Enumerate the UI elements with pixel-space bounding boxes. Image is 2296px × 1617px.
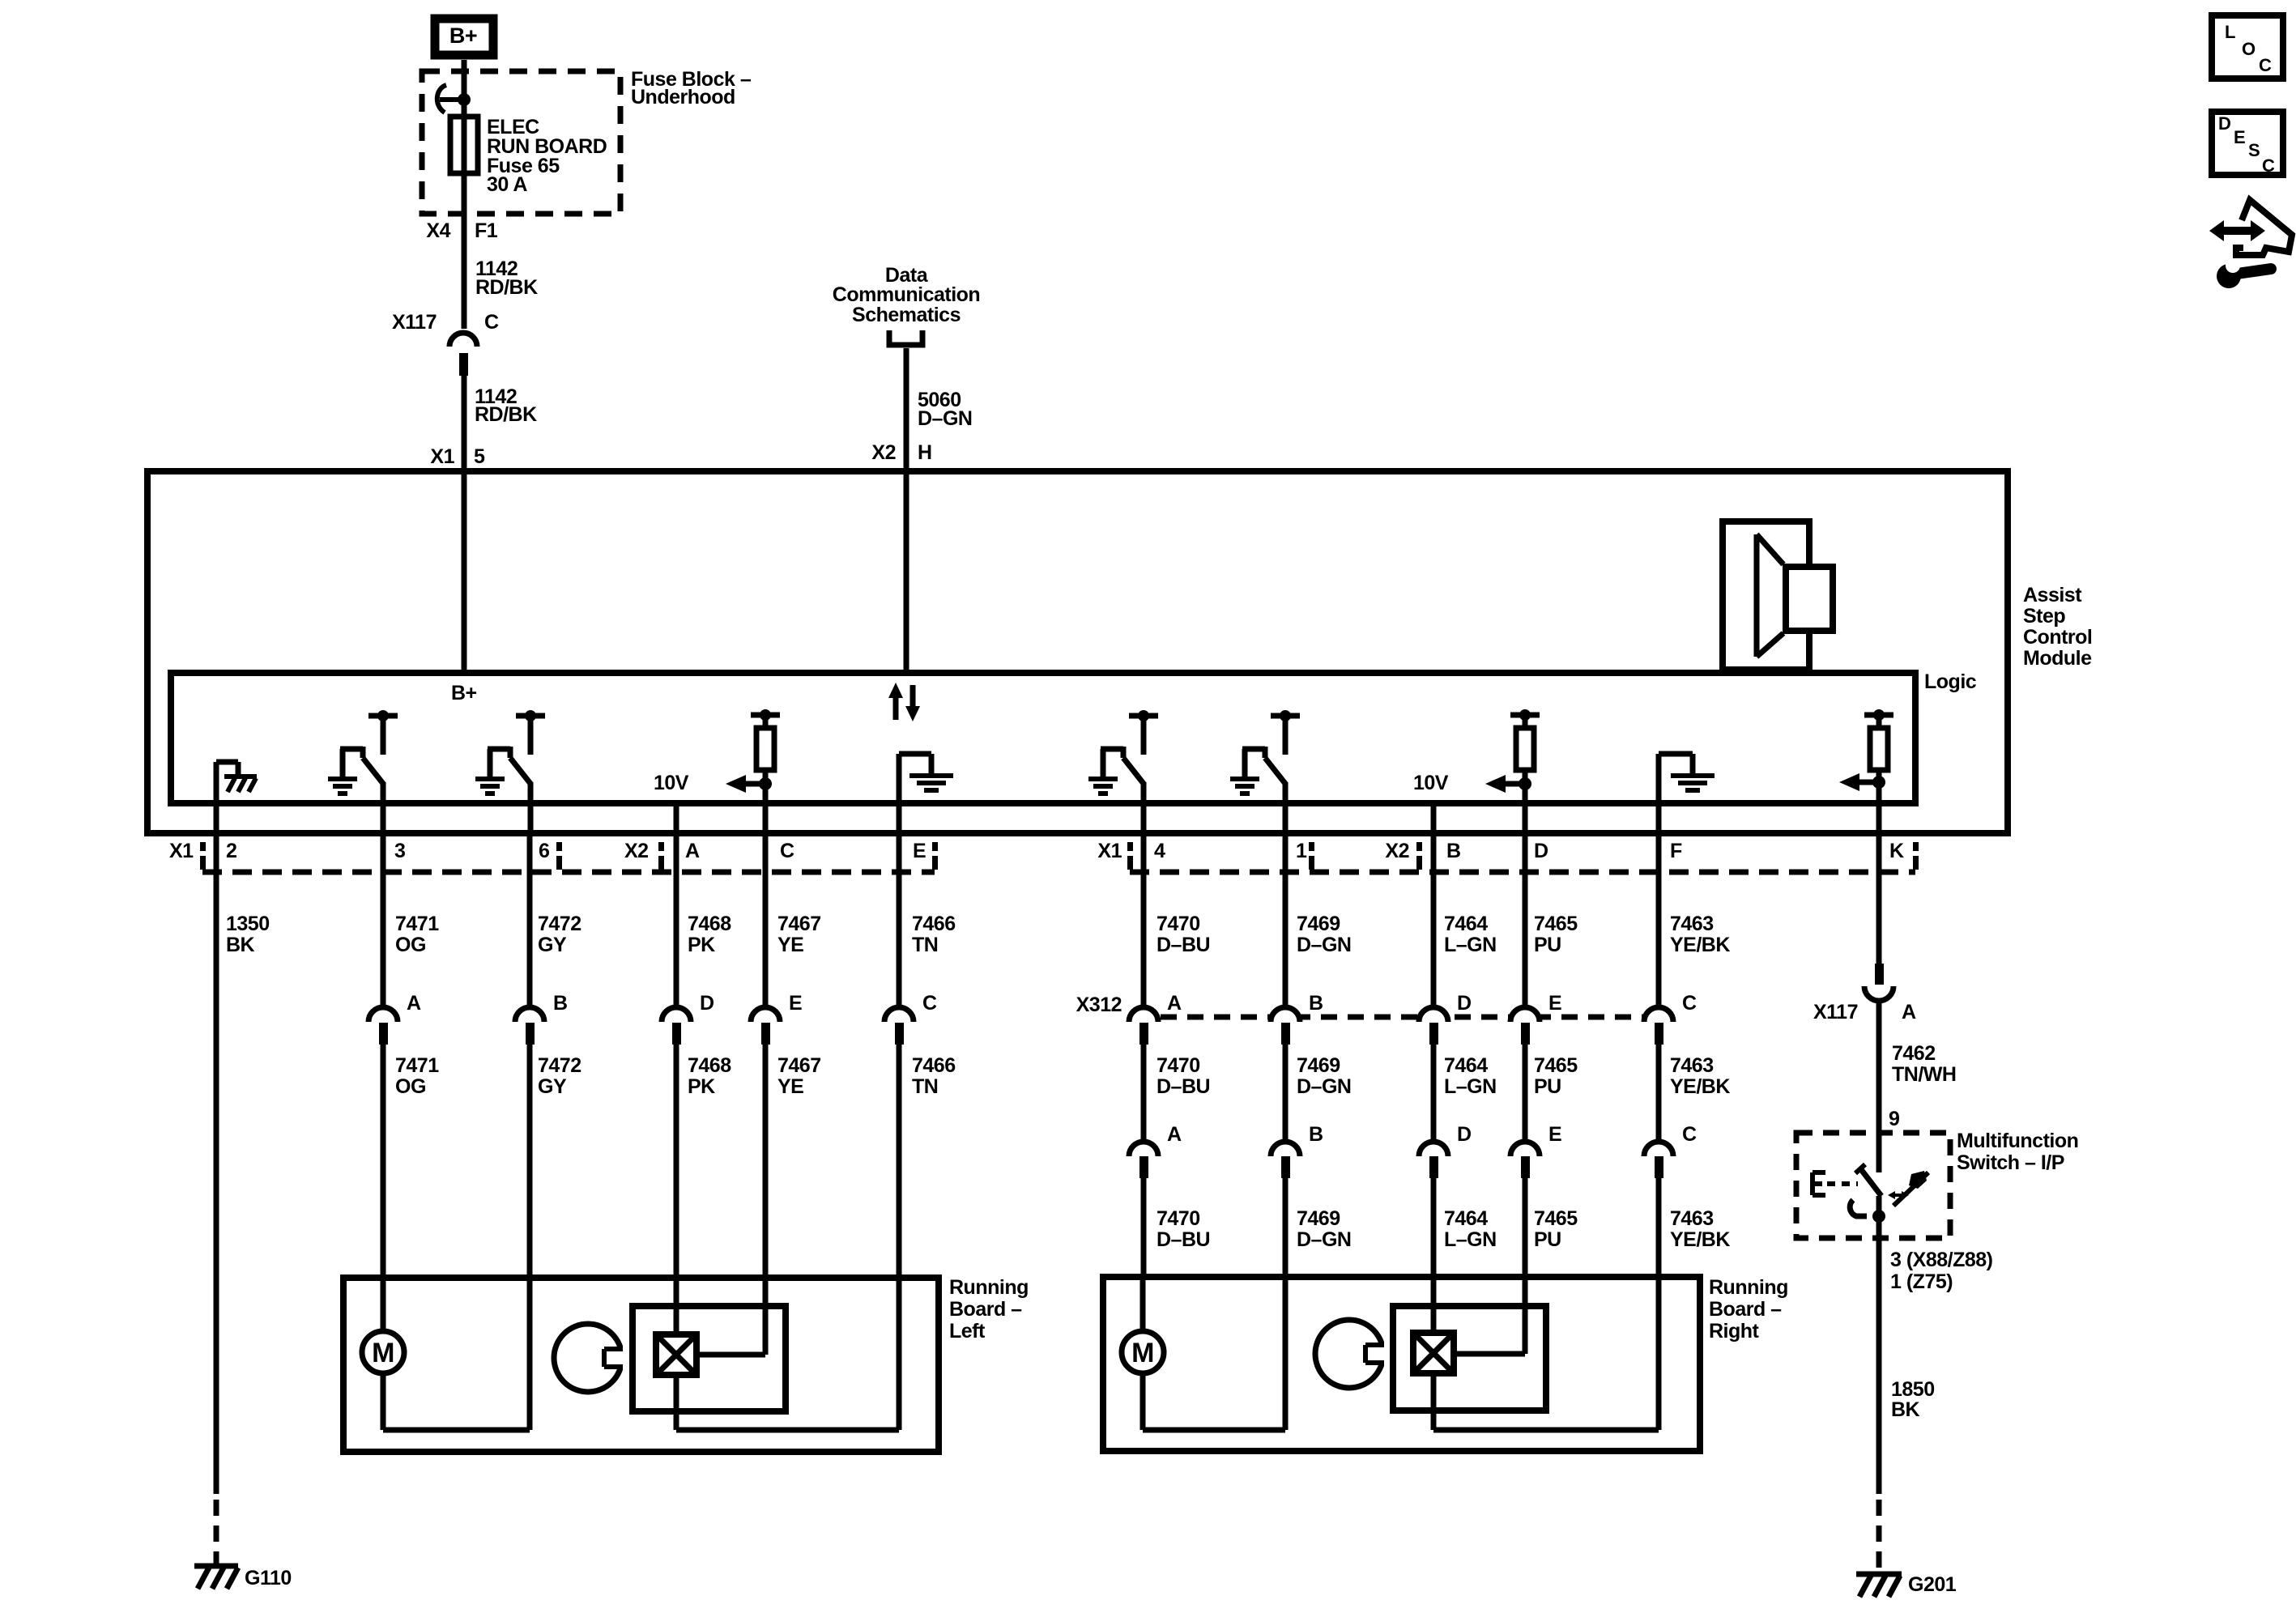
svg-text:A: A [685, 840, 700, 862]
svg-text:D–BU: D–BU [1157, 934, 1210, 956]
ground G110 [194, 1564, 238, 1569]
svg-text:C: C [1682, 992, 1697, 1015]
svg-text:7471: 7471 [395, 913, 439, 935]
wire 5060 D-GN [904, 348, 909, 471]
svg-text:7471: 7471 [395, 1054, 439, 1077]
svg-text:C: C [780, 840, 794, 862]
svg-text:D: D [2218, 113, 2230, 134]
svg-text:Board –: Board – [1709, 1298, 1782, 1321]
svg-text:E: E [1548, 992, 1561, 1015]
wire 7468 PK lower segment [674, 1045, 679, 1278]
svg-text:TN: TN [912, 1075, 938, 1098]
svg-text:B: B [553, 992, 568, 1015]
svg-text:7467: 7467 [777, 913, 821, 935]
svg-text:7466: 7466 [912, 913, 956, 935]
svg-text:Right: Right [1709, 1320, 1760, 1343]
svg-text:K: K [1889, 840, 1904, 862]
svg-text:A: A [1167, 1123, 1182, 1146]
description operation icon [2236, 200, 2292, 255]
svg-text:GY: GY [538, 1075, 567, 1098]
wire 7469 D–GN lower segment [1283, 1178, 1289, 1277]
wire motor right return [1143, 1428, 1285, 1433]
svg-text:1 (Z75): 1 (Z75) [1890, 1270, 1953, 1293]
switch S3 (pin 4) extend [1129, 713, 1158, 719]
separator after 6 [556, 842, 562, 851]
battery feed B+ box [435, 19, 493, 55]
wire solenoid left to 7467 [696, 1352, 765, 1358]
svg-text:PU: PU [1534, 1228, 1561, 1251]
svg-text:YE: YE [777, 1075, 803, 1098]
wire pin A stub [674, 803, 679, 833]
svg-text:7464: 7464 [1444, 913, 1488, 935]
svg-text:7469: 7469 [1297, 1054, 1340, 1077]
wire solenoid left return [674, 1375, 679, 1430]
wire 1350 BK [214, 833, 219, 1494]
svg-text:TN/WH: TN/WH [1892, 1063, 1956, 1086]
svg-text:7465: 7465 [1534, 913, 1578, 935]
svg-text:D–BU: D–BU [1157, 1075, 1210, 1098]
wire 1142 RD/BK to module [462, 374, 467, 471]
svg-text:BK: BK [226, 934, 255, 956]
multifunction switch dashed box [1796, 1133, 1950, 1238]
svg-text:5: 5 [474, 445, 485, 468]
wire 7469 D–GN upper segment [1283, 833, 1289, 1009]
svg-text:7469: 7469 [1297, 913, 1340, 935]
resistor with 10V supply (pin C) [751, 713, 780, 718]
svg-text:B+: B+ [451, 682, 477, 704]
svg-text:S: S [2248, 140, 2260, 160]
wire 7462 TN/WH lower [1876, 1001, 1882, 1172]
connector X312 dashed line [1161, 1015, 1643, 1020]
svg-text:B: B [1309, 1123, 1323, 1146]
motor M left [381, 1278, 386, 1331]
separator X1 [200, 842, 206, 851]
wire 7463 YE/BK lower segment [1656, 1178, 1662, 1277]
wire 7470 D–BU lower segment [1141, 1178, 1147, 1277]
multifunction switch lever icon [1893, 1172, 1928, 1206]
svg-text:A: A [1167, 992, 1182, 1015]
svg-text:X117: X117 [1813, 1001, 1858, 1023]
svg-text:7470: 7470 [1157, 913, 1200, 935]
wire from B+ through fuse to connector X117 [462, 60, 467, 329]
svg-text:X1: X1 [169, 840, 194, 862]
wire 7468 PK upper segment [674, 833, 679, 1009]
svg-text:7470: 7470 [1157, 1054, 1200, 1077]
svg-text:4: 4 [1154, 840, 1165, 862]
svg-text:7472: 7472 [538, 913, 581, 935]
svg-text:B+: B+ [449, 23, 477, 48]
svg-text:X1: X1 [430, 445, 454, 468]
wire 7470 D–BU middle segment [1141, 1045, 1147, 1143]
ground G201 [1856, 1572, 1902, 1577]
svg-text:E: E [913, 840, 926, 862]
separator X1 right [1127, 842, 1133, 851]
svg-text:YE: YE [777, 934, 803, 956]
wire 7465 PU middle segment [1523, 1045, 1528, 1143]
svg-text:E: E [1548, 1123, 1561, 1146]
separator after E [932, 842, 938, 851]
DESC reference box [2212, 112, 2283, 175]
svg-text:Control: Control [2023, 626, 2092, 649]
svg-text:Running: Running [949, 1276, 1029, 1299]
fuse block underhood dashed box [422, 71, 620, 214]
svg-text:7472: 7472 [538, 1054, 581, 1077]
svg-text:X2: X2 [871, 441, 896, 464]
wrench icon [2217, 264, 2241, 288]
svg-text:D: D [1457, 992, 1472, 1015]
clutch housing right [1393, 1306, 1546, 1411]
wire 7464 L–GN middle segment [1431, 1045, 1437, 1143]
svg-text:E: E [789, 992, 802, 1015]
svg-text:D–GN: D–GN [918, 407, 972, 430]
wire 7472 GY lower segment [527, 1045, 533, 1278]
wire 7463 YE/BK upper segment [1656, 833, 1662, 1009]
svg-text:BK: BK [1891, 1398, 1920, 1421]
svg-text:L–GN: L–GN [1444, 934, 1497, 956]
svg-text:YE/BK: YE/BK [1670, 934, 1730, 956]
svg-text:D–GN: D–GN [1297, 1228, 1351, 1251]
separator X2 [658, 842, 664, 851]
wire 7471 OG upper segment [381, 833, 386, 1009]
wire solenoid right to 7465 [1454, 1351, 1525, 1357]
svg-text:7464: 7464 [1444, 1054, 1488, 1077]
svg-text:Communication: Communication [833, 283, 980, 306]
multifunction switch contact E [1810, 1172, 1815, 1195]
svg-text:7470: 7470 [1157, 1207, 1200, 1230]
svg-text:OG: OG [395, 1075, 426, 1098]
position sensor left [554, 1324, 622, 1392]
Running Board - Left box [343, 1278, 939, 1452]
wire serial data inside module [904, 471, 909, 673]
svg-text:C: C [1682, 1123, 1697, 1146]
speaker icon [1723, 521, 1809, 670]
wire 1350 BK dashed break [214, 1500, 219, 1564]
motor M right [1140, 1277, 1146, 1331]
wire pin B stub [1431, 803, 1437, 833]
wire 7470 D–BU upper segment [1141, 833, 1147, 1009]
separator after K [1913, 842, 1919, 851]
svg-text:Running: Running [1709, 1276, 1788, 1299]
svg-text:X312: X312 [1076, 994, 1122, 1016]
svg-text:D: D [700, 992, 714, 1015]
svg-text:7465: 7465 [1534, 1054, 1578, 1077]
resistor with 10V supply (pin D) [1510, 713, 1540, 718]
svg-text:C: C [2262, 155, 2275, 176]
svg-text:A: A [407, 992, 421, 1015]
switch S2 (pin 6) retract [516, 713, 545, 719]
svg-text:C: C [484, 311, 499, 334]
position sensor right [1315, 1320, 1383, 1388]
svg-text:10V: 10V [1413, 772, 1449, 794]
wire 7464 L–GN lower segment [1431, 1178, 1437, 1277]
dashed connector face line (left) [202, 870, 935, 875]
chassis ground internal (pin 2) [214, 762, 219, 833]
svg-text:D: D [1534, 840, 1548, 862]
svg-text:D–BU: D–BU [1157, 1228, 1210, 1251]
Assist Step Control Module outer box [147, 471, 2008, 833]
wire 1850 BK dashed break [1876, 1500, 1882, 1569]
svg-text:OG: OG [395, 934, 426, 956]
svg-text:Left: Left [949, 1320, 986, 1343]
svg-text:C: C [2259, 55, 2272, 75]
solenoid left [674, 1278, 679, 1334]
svg-text:7468: 7468 [688, 1054, 731, 1077]
svg-text:Logic: Logic [1924, 670, 1977, 693]
wire 7465 PU lower segment [1523, 1178, 1528, 1277]
svg-text:9: 9 [1889, 1108, 1899, 1130]
wire 7472 GY upper segment [527, 833, 533, 1009]
wire solenoid right return [1431, 1373, 1437, 1430]
svg-text:1850: 1850 [1891, 1378, 1935, 1401]
serial data arrows [893, 696, 899, 720]
svg-text:X4: X4 [426, 219, 450, 242]
wire from switch to splice [1876, 1196, 1882, 1216]
svg-text:H: H [918, 441, 932, 464]
switch S4 (pin 1) retract [1271, 713, 1300, 719]
svg-text:RD/BK: RD/BK [475, 276, 538, 299]
svg-text:L–GN: L–GN [1444, 1075, 1497, 1098]
junction dot on B+ feed [458, 93, 471, 106]
svg-text:F: F [1670, 840, 1682, 862]
svg-text:Switch – I/P: Switch – I/P [1957, 1151, 2064, 1174]
dashed connector face line (right) [1130, 870, 1915, 875]
svg-text:X1: X1 [1097, 840, 1122, 862]
wire 7471 OG lower segment [381, 1045, 386, 1278]
svg-text:B: B [1446, 840, 1461, 862]
svg-text:Module: Module [2023, 647, 2092, 670]
svg-text:7467: 7467 [777, 1054, 821, 1077]
wire motor left return [383, 1428, 530, 1433]
svg-text:D–GN: D–GN [1297, 934, 1351, 956]
svg-text:E: E [2234, 127, 2245, 147]
wire 7467 YE lower segment [763, 1045, 769, 1278]
svg-text:D–GN: D–GN [1297, 1075, 1351, 1098]
Running Board - Right box [1103, 1277, 1700, 1451]
fuse F65 ELEC RUN BOARD 30A [450, 117, 478, 173]
svg-text:7469: 7469 [1297, 1207, 1340, 1230]
svg-text:X117: X117 [392, 311, 437, 334]
svg-text:2: 2 [226, 840, 236, 862]
svg-text:10V: 10V [654, 772, 689, 794]
clutch housing left [633, 1306, 786, 1411]
svg-text:7464: 7464 [1444, 1207, 1488, 1230]
wire 7467 YE upper segment [763, 833, 769, 1009]
switch S1 (pin 3) extend [368, 713, 398, 719]
svg-text:O: O [2242, 39, 2256, 59]
svg-text:1: 1 [1296, 840, 1307, 862]
svg-text:YE/BK: YE/BK [1670, 1228, 1730, 1251]
earth ground internal (pin E) [897, 754, 902, 833]
svg-text:X2: X2 [624, 840, 649, 862]
svg-text:Step: Step [2023, 605, 2065, 628]
svg-text:Underhood: Underhood [631, 86, 735, 109]
svg-text:30 A: 30 A [487, 173, 527, 196]
wire 7463 YE/BK middle segment [1656, 1045, 1662, 1143]
wire 7464 L–GN upper segment [1431, 833, 1437, 1009]
svg-text:M: M [1131, 1338, 1154, 1368]
svg-text:7463: 7463 [1670, 913, 1714, 935]
svg-text:RD/BK: RD/BK [475, 403, 537, 426]
svg-text:YE/BK: YE/BK [1670, 1075, 1730, 1098]
svg-text:7466: 7466 [912, 1054, 956, 1077]
wire 7466 TN upper segment [897, 833, 902, 1009]
multifunction switch blade [1855, 1164, 1865, 1173]
separator after 1 [1309, 842, 1314, 851]
wire 7462 TN/WH (pin K) [1876, 833, 1882, 965]
svg-text:Schematics: Schematics [852, 304, 961, 326]
svg-text:7463: 7463 [1670, 1054, 1714, 1077]
svg-text:C: C [922, 992, 937, 1015]
svg-text:GY: GY [538, 934, 567, 956]
svg-text:PU: PU [1534, 934, 1561, 956]
svg-text:TN: TN [912, 934, 938, 956]
svg-text:PU: PU [1534, 1075, 1561, 1098]
svg-text:F1: F1 [475, 219, 498, 242]
svg-text:G201: G201 [1908, 1573, 1957, 1596]
LOC reference box [2212, 15, 2283, 79]
separator X2 right [1416, 842, 1422, 851]
svg-text:D: D [1457, 1123, 1472, 1146]
bus bar tap hook in fuse block [437, 85, 446, 113]
svg-text:1350: 1350 [226, 913, 270, 935]
svg-text:7462: 7462 [1892, 1042, 1936, 1065]
wire 7469 D–GN middle segment [1283, 1045, 1289, 1143]
svg-text:L: L [2225, 22, 2235, 42]
svg-text:7465: 7465 [1534, 1207, 1578, 1230]
svg-text:6: 6 [539, 840, 549, 862]
svg-text:3: 3 [394, 840, 405, 862]
svg-text:7468: 7468 [688, 913, 731, 935]
svg-text:Assist: Assist [2023, 584, 2082, 606]
wire 7466 TN lower segment [897, 1045, 902, 1278]
svg-text:B: B [1309, 992, 1323, 1015]
svg-text:G110: G110 [245, 1567, 292, 1589]
svg-text:7463: 7463 [1670, 1207, 1714, 1230]
off-page reference bracket [889, 330, 922, 345]
earth ground internal (pin F) [1656, 754, 1662, 833]
svg-text:3 (X88/Z88): 3 (X88/Z88) [1890, 1249, 1993, 1271]
svg-text:Multifunction: Multifunction [1957, 1130, 2078, 1152]
svg-text:A: A [1902, 1001, 1916, 1023]
svg-text:X2: X2 [1385, 840, 1409, 862]
svg-text:PK: PK [688, 934, 715, 956]
logic inner box [171, 673, 1915, 803]
wire 7465 PU upper segment [1523, 833, 1528, 1009]
svg-text:M: M [372, 1338, 394, 1368]
multifunction switch lower contact [1850, 1200, 1867, 1216]
svg-text:PK: PK [688, 1075, 715, 1098]
solenoid right [1431, 1277, 1437, 1333]
resistor sense (pin K) [1864, 713, 1893, 718]
svg-text:Board –: Board – [949, 1298, 1022, 1321]
svg-text:L–GN: L–GN [1444, 1228, 1497, 1251]
wire B+ inside module [462, 471, 467, 673]
